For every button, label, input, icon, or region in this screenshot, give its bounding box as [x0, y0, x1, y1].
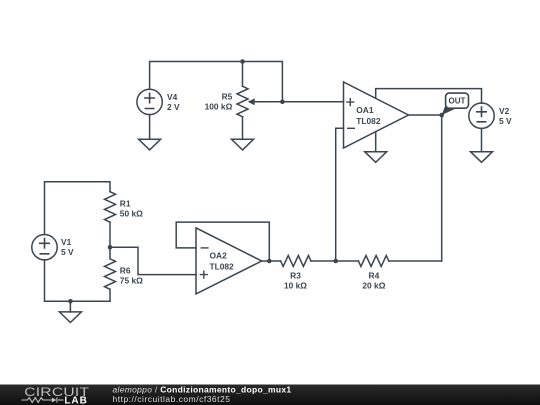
svg-text:TL082: TL082	[210, 262, 235, 272]
svg-text:R4: R4	[369, 271, 380, 281]
svg-text:R5: R5	[222, 92, 233, 102]
svg-text:TL082: TL082	[356, 116, 381, 126]
svg-text:10 kΩ: 10 kΩ	[284, 281, 307, 291]
svg-text:alemoppo / Condizionamento_dop: alemoppo / Condizionamento_dopo_mux1	[113, 384, 292, 394]
svg-text:http://circuitlab.com/cf36t25: http://circuitlab.com/cf36t25	[113, 394, 231, 404]
svg-text:R6: R6	[120, 265, 131, 275]
svg-text:20 kΩ: 20 kΩ	[362, 281, 385, 291]
svg-text:5 V: 5 V	[499, 116, 512, 126]
svg-text:R3: R3	[290, 271, 301, 281]
svg-text:V2: V2	[499, 106, 510, 116]
svg-text:2 V: 2 V	[167, 102, 180, 112]
svg-text:V1: V1	[61, 237, 72, 247]
svg-text:OA1: OA1	[356, 105, 374, 115]
svg-text:V4: V4	[167, 92, 178, 102]
svg-text:100 kΩ: 100 kΩ	[205, 102, 233, 112]
svg-text:OUT: OUT	[449, 97, 466, 106]
svg-text:50 kΩ: 50 kΩ	[120, 209, 143, 219]
svg-text:5 V: 5 V	[61, 247, 74, 257]
svg-text:OA2: OA2	[210, 251, 228, 261]
svg-text:75 kΩ: 75 kΩ	[120, 275, 143, 285]
svg-text:R1: R1	[120, 199, 131, 209]
svg-text:LAB: LAB	[64, 395, 88, 405]
